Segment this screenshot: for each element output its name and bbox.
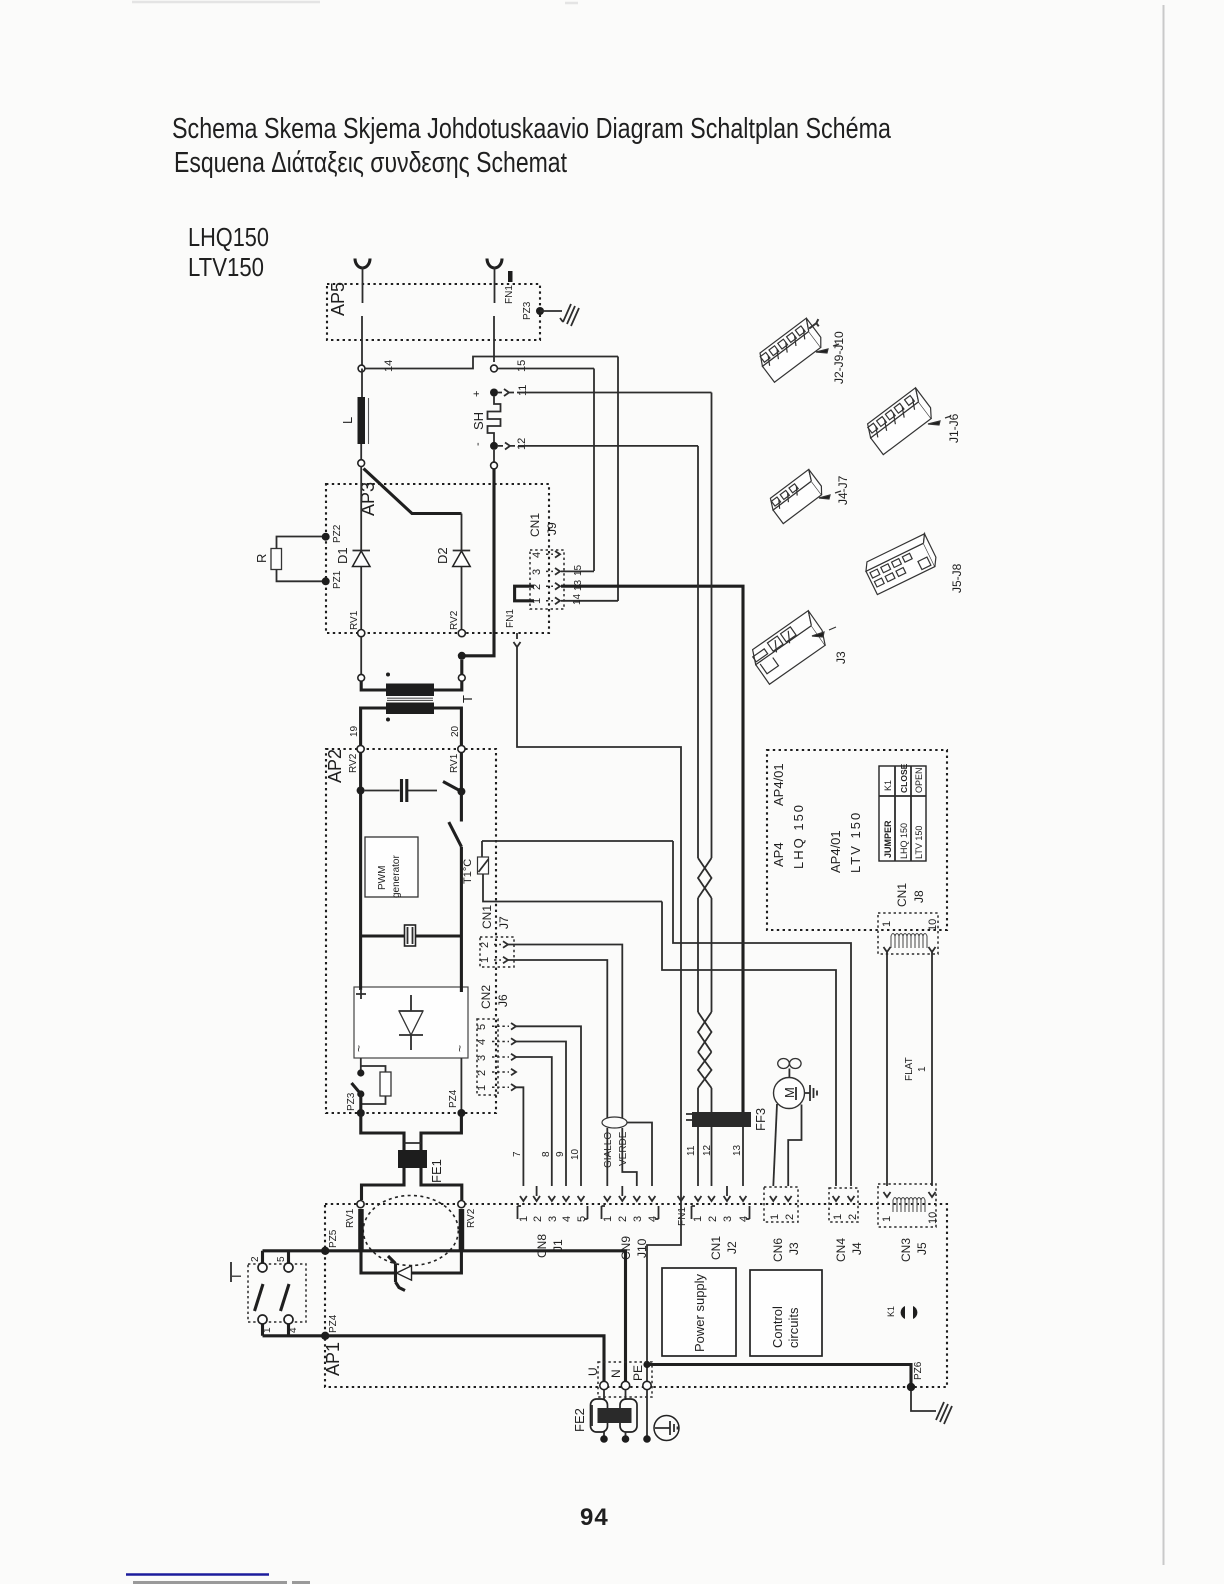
pin arrow J4-J7: [819, 491, 841, 499]
svg-text:D2: D2: [435, 547, 450, 564]
svg-text:PZ1: PZ1: [332, 570, 343, 589]
svg-text:12: 12: [702, 1144, 713, 1156]
svg-text:3: 3: [547, 1216, 559, 1222]
svg-text:14: 14: [572, 593, 583, 605]
pin chevrons CN4: [833, 1196, 855, 1201]
svg-text:19: 19: [349, 725, 360, 737]
coil symbol in CN1/J8: [891, 934, 927, 948]
svg-text:11: 11: [517, 385, 529, 396]
node circle below shunt: [491, 462, 498, 469]
svg-text:J9: J9: [545, 522, 559, 535]
svg-text:SH: SH: [471, 412, 486, 430]
pin 2 of CN2/J6: [492, 1071, 509, 1073]
ferrite FE1: [361, 1113, 462, 1150]
svg-text:J4: J4: [850, 1242, 864, 1255]
switch blade right: [281, 1284, 290, 1311]
transformer T secondary connections: [361, 708, 462, 745]
node RV2 circle: [458, 630, 465, 637]
svg-text:RV2: RV2: [466, 1208, 477, 1228]
pin 4 of CN2/J6: [492, 1041, 509, 1043]
plus mark in bridge: [356, 989, 366, 999]
connector CN1/J7 box: [480, 937, 514, 967]
svg-text:3: 3: [632, 1216, 644, 1222]
output terminal hook left: [355, 259, 370, 269]
node shunt plus dot: [490, 389, 498, 397]
ferrite FE2 loops: [604, 1390, 626, 1400]
wire 13 heavy: [561, 586, 743, 1127]
svg-text:1: 1: [832, 1214, 844, 1220]
svg-text:AP1: AP1: [323, 1342, 343, 1376]
connector CN6/J3 box: [764, 1187, 798, 1222]
node shunt minus dot: [490, 442, 498, 450]
power supply box: [662, 1268, 736, 1356]
pin stub CN1 pin3: [726, 1186, 728, 1196]
svg-text:-: -: [472, 442, 484, 446]
box AP4/01: [767, 750, 947, 930]
node dot PZ3 lower: [357, 1090, 364, 1097]
footer blue rule: [126, 1573, 269, 1576]
scan edge vertical line: [1163, 5, 1165, 1565]
wire right bus lower: [460, 847, 463, 936]
FE2 exit wires: [604, 1432, 626, 1436]
svg-text:10: 10: [570, 1148, 581, 1160]
wire right bus into bridge: [460, 936, 463, 992]
switch I box: [248, 1264, 306, 1322]
wire FN1 to PE: [647, 1186, 681, 1382]
wire R to PZ2: [277, 537, 326, 549]
wire PE down: [646, 1390, 648, 1436]
svg-text:PZ6: PZ6: [913, 1361, 924, 1380]
ferrite FE2 core: [598, 1408, 632, 1423]
resistor R body: [271, 549, 282, 570]
connector pictorial J4-J7: [766, 469, 825, 523]
pin 3 of CN2/J6: [492, 1056, 509, 1058]
box AP2: [326, 749, 496, 1113]
motor wire left: [773, 1104, 777, 1186]
inductor L lead upper: [361, 369, 363, 398]
svg-text:CN8: CN8: [535, 1234, 549, 1258]
wire D1 branch upper: [360, 467, 362, 551]
transformer T primary winding: [386, 684, 434, 697]
pin chevrons CN1/J2: [695, 1196, 747, 1201]
svg-text:FN1: FN1: [505, 609, 516, 628]
svg-text:L: L: [340, 417, 355, 424]
svg-text:LHQ 150: LHQ 150: [791, 803, 806, 869]
wire RV1 to dot: [460, 753, 463, 788]
transformer T primary connections: [361, 681, 462, 690]
chassis ground (PZ6): [936, 1402, 952, 1424]
wire D2 branch lower: [461, 567, 463, 630]
inductor L core line: [368, 398, 370, 444]
earth symbol circled: [654, 1416, 679, 1441]
svg-text:2: 2: [479, 942, 491, 948]
svg-text:CLOSE: CLOSE: [899, 763, 909, 793]
pin chevrons CN9: [604, 1196, 656, 1201]
wire 12 horizontal: [518, 445, 698, 447]
svg-text:PZ4: PZ4: [448, 1089, 459, 1108]
pin 1 of CN1/J7: [494, 959, 501, 961]
connector row: CN9/J10 bracket: [602, 1206, 606, 1219]
node circle left 14: [358, 365, 365, 372]
wire PZ3 to chassis ground: [540, 310, 562, 312]
thermostat T1C branch bottom: [483, 874, 662, 902]
svg-text:10: 10: [927, 919, 939, 931]
svg-text:FLAT: FLAT: [904, 1057, 915, 1081]
svg-text:K1: K1: [886, 1306, 896, 1317]
svg-text:CN1: CN1: [480, 905, 494, 929]
bypass resistor loop: [361, 1066, 386, 1072]
svg-text:T: T: [460, 695, 475, 703]
wire triac loop: [361, 1251, 461, 1273]
wire left bus into bridge: [359, 936, 362, 990]
node circle T primary right: [458, 674, 465, 681]
wire diagonal electrode feed: [364, 469, 462, 514]
svg-text:J3: J3: [787, 1242, 801, 1255]
svg-text:VERDE: VERDE: [618, 1131, 629, 1166]
wire AP2 left bus upper: [359, 753, 362, 936]
svg-text:D1: D1: [335, 547, 350, 564]
svg-text:circuits: circuits: [786, 1307, 801, 1348]
svg-text:5: 5: [276, 1256, 287, 1262]
wire 11 to pin: [697, 1088, 699, 1186]
node PZ5 dot: [321, 1247, 329, 1255]
node PZ1 dot: [322, 577, 330, 585]
diode D2: [453, 551, 471, 567]
jumper K1: [901, 1306, 905, 1319]
node RV2 circle (AP1): [458, 1201, 465, 1208]
wire to PZ3 node: [359, 1094, 362, 1110]
terminal PE circle: [643, 1381, 651, 1389]
svg-text:CN4: CN4: [834, 1238, 848, 1262]
pin 5 of CN2/J6: [492, 1025, 509, 1027]
node supply dot U: [600, 1435, 608, 1443]
node PZ6 dot: [907, 1383, 915, 1391]
node circle T primary left: [358, 674, 365, 681]
wire right bus to open switch: [460, 792, 463, 822]
scan top edge marks: [132, 2, 578, 3]
connector CN3/J5 box: [878, 1184, 936, 1227]
transformer T polarity dot bottom: [386, 718, 390, 722]
node PZ3 dot: [536, 307, 544, 315]
svg-text:FF3: FF3: [753, 1108, 768, 1131]
svg-text:J5-J8: J5-J8: [950, 563, 964, 593]
wire 14 pin lead: [561, 600, 618, 602]
wire cable to CN9 pin4: [627, 1123, 652, 1187]
svg-text:5: 5: [476, 1024, 488, 1030]
wire D1 branch lower: [360, 567, 362, 630]
pin 2 of CN1/J7: [494, 944, 501, 946]
varistor RV2 bar: [459, 1209, 465, 1251]
node PZ4 dot: [457, 1109, 465, 1117]
wire right torch lead lower: [493, 316, 495, 362]
wire neutral bus PZ4: [325, 1336, 604, 1382]
fuse component on AP2 link: [361, 934, 462, 937]
switch terminal 2: [258, 1263, 267, 1272]
svg-text:~: ~: [352, 1045, 366, 1052]
svg-text:12: 12: [516, 438, 528, 450]
svg-text:2: 2: [476, 1070, 488, 1076]
svg-text:J3: J3: [834, 651, 848, 664]
wire 15 vertical drop: [593, 369, 595, 572]
wire switch top to PZ5: [263, 1251, 326, 1263]
svg-text:FE1: FE1: [429, 1159, 444, 1183]
U N PE terminal box: [598, 1362, 652, 1397]
wire shunt branch through AP3: [465, 469, 494, 656]
wire J7 pin2 to VERDE: [508, 945, 622, 1119]
svg-text:LTV 150: LTV 150: [848, 811, 863, 873]
inductor L body: [358, 397, 366, 444]
box AP1: [325, 1204, 947, 1387]
switch blade open (right bus): [449, 822, 462, 847]
pin chevrons CN3: [884, 1192, 936, 1197]
node RV1 circle (AP2): [458, 745, 465, 752]
coil symbol in CN3/J5: [893, 1198, 925, 1212]
wire 11 arrow: [498, 389, 514, 396]
pin chevrons CN1/J8: [884, 947, 936, 952]
motor M body: [774, 1078, 805, 1109]
svg-text:2: 2: [532, 1216, 544, 1222]
terminal N circle: [621, 1381, 629, 1389]
svg-text:T1°C: T1°C: [462, 859, 474, 884]
svg-text:94: 94: [580, 1504, 609, 1531]
wire 11 horizontal: [517, 392, 712, 394]
node RV1 circle: [358, 630, 365, 637]
pin 2 of CN1/J9: [546, 585, 553, 587]
svg-text:3: 3: [476, 1055, 488, 1061]
transformer T core lines: [387, 698, 433, 700]
wire 14 vertical drop: [617, 357, 619, 602]
svg-text:1: 1: [476, 1085, 488, 1091]
wire 10 from pin5: [516, 1026, 581, 1186]
wire RV2 to transformer: [460, 660, 463, 674]
chassis ground (AP5): [560, 304, 579, 326]
node dot right switch: [457, 788, 465, 796]
cable marker ellipse GIALLO/VERDE: [602, 1117, 627, 1128]
svg-text:20: 20: [450, 725, 461, 737]
shunt SH zigzag: [488, 397, 501, 443]
output terminal hook right: [487, 259, 502, 269]
transformer T secondary winding: [386, 703, 434, 715]
wire bridge right to PZ4: [460, 1058, 462, 1110]
diode in bridge: [399, 995, 423, 1050]
wire FN1 drop: [514, 633, 682, 1186]
svg-text:LHQ150: LHQ150: [188, 222, 269, 252]
svg-text:15: 15: [516, 360, 528, 372]
wire 14 horizontal: [365, 357, 618, 369]
svg-text:LTV 150: LTV 150: [914, 826, 924, 859]
label I with overbar: [230, 1262, 232, 1282]
svg-text:13: 13: [732, 1144, 743, 1156]
triac symbol: [397, 1266, 412, 1280]
bridge box: [354, 987, 468, 1058]
varistor RV1 bar: [358, 1209, 364, 1251]
svg-text:+: +: [471, 391, 483, 397]
motor M fan blades: [778, 1059, 790, 1069]
svg-text:PZ5: PZ5: [328, 1229, 339, 1248]
svg-text:U: U: [586, 1367, 600, 1376]
node PZ2 dot: [322, 533, 330, 541]
FLAT cable wire 2: [931, 952, 933, 1186]
svg-text:J2-J9-J10: J2-J9-J10: [832, 331, 846, 384]
wire GIALLO lower: [606, 1128, 608, 1186]
svg-text:K1: K1: [883, 780, 893, 791]
switch terminal 5: [284, 1263, 293, 1272]
svg-text:AP2: AP2: [325, 749, 345, 783]
pin 1 of CN1/J9: [546, 600, 553, 602]
thermostat T1C branch left: [481, 841, 483, 857]
svg-text:Esquena Διάταξεις συνδεσης Sc: Esquena Διάταξεις συνδεσης Schemat: [174, 147, 567, 179]
svg-text:11: 11: [686, 1145, 697, 1156]
svg-text:I: I: [229, 1274, 244, 1278]
thermostat T1C branch top: [482, 840, 673, 842]
svg-text:J5: J5: [915, 1242, 929, 1255]
twisted pair 11/12 lower twist: [698, 1012, 712, 1088]
svg-text:J1-J6: J1-J6: [947, 413, 961, 443]
wire 15 horizontal: [498, 368, 595, 370]
box AP5: [327, 284, 540, 340]
motor earth: [805, 1085, 818, 1101]
switch terminal 1: [258, 1315, 267, 1324]
pin arrow J1-J6: [928, 416, 951, 425]
switch blade (cap to RV1 wire): [443, 782, 461, 792]
node circle right 15: [491, 365, 498, 372]
connector pictorial J3: [748, 611, 830, 685]
connector row: CN8/J1 bracket: [518, 1206, 522, 1219]
node junction dot on RV2 wire: [458, 652, 466, 660]
inductor L lead lower: [360, 444, 362, 460]
node PE junction dot: [643, 1361, 650, 1368]
connector CN2/J6 box: [477, 1019, 498, 1095]
box AP3: [326, 484, 549, 633]
wire D2 branch upper: [461, 514, 463, 551]
wire R to PZ1: [277, 570, 326, 582]
svg-text:J1: J1: [551, 1239, 565, 1252]
svg-text:AP4/01: AP4/01: [828, 830, 843, 873]
svg-text:2: 2: [617, 1216, 629, 1222]
svg-text:GIALLO: GIALLO: [603, 1132, 614, 1168]
thermostat T1C body: [478, 857, 489, 874]
svg-text:R: R: [254, 554, 269, 563]
node PZ3 dot (AP2): [357, 1109, 365, 1117]
svg-text:RV1: RV1: [345, 1208, 356, 1228]
svg-text:PZ2: PZ2: [332, 524, 343, 543]
wire 12 to pin: [711, 1088, 713, 1186]
fan unit dotted ellipse: [363, 1196, 458, 1266]
pin arrow J2-J9-J10: [816, 344, 839, 353]
jumper loop pins 1-2 of CN1/J9: [515, 586, 534, 601]
svg-text:3: 3: [531, 569, 543, 575]
pin chevrons CN8: [520, 1196, 584, 1201]
motor M stem: [788, 1069, 790, 1079]
FLAT cable wire 1: [886, 952, 888, 1186]
svg-text:PWM: PWM: [377, 866, 388, 890]
svg-text:13: 13: [573, 579, 584, 591]
svg-text:M: M: [782, 1087, 797, 1098]
transformer T polarity dot top: [386, 673, 390, 677]
svg-text:2: 2: [847, 1214, 859, 1220]
capacitor C plates: [365, 790, 437, 792]
pin arrow J3: [812, 627, 836, 637]
wire 8 from pin3: [516, 1057, 552, 1186]
svg-text:1: 1: [518, 1216, 530, 1222]
node supply dot PE: [643, 1435, 651, 1443]
wire left torch lead lower: [361, 316, 363, 365]
wire VERDE lower jog to pin3: [622, 1128, 637, 1186]
svg-text:J4-J7: J4-J7: [836, 475, 850, 505]
svg-text:AP5: AP5: [328, 282, 348, 316]
wire 7 from pin1: [516, 1087, 523, 1186]
wire left torch lead upper: [362, 267, 364, 303]
node circle below L: [358, 460, 365, 467]
svg-text:J6: J6: [496, 994, 510, 1007]
connector pictorial J5-J8: [862, 534, 939, 595]
wire switch bottom to PZ4: [263, 1324, 326, 1336]
pin stub CN9 pin2: [621, 1186, 623, 1196]
twisted pair 11/12 mid: [698, 898, 712, 1012]
svg-text:LTV150: LTV150: [188, 252, 264, 282]
pin 1 of CN2/J6: [492, 1086, 509, 1088]
pin 4 of CN1/J9: [546, 553, 553, 555]
svg-text:OPEN: OPEN: [914, 767, 924, 793]
svg-text:4: 4: [531, 552, 543, 558]
svg-text:RV2: RV2: [449, 610, 460, 630]
svg-text:PZ4: PZ4: [328, 1314, 339, 1333]
svg-text:1: 1: [602, 1216, 614, 1222]
svg-text:JUMPER: JUMPER: [883, 820, 893, 858]
svg-text:PE: PE: [631, 1365, 645, 1381]
node RV1 circle (AP1): [357, 1201, 364, 1208]
svg-text:1: 1: [769, 1214, 781, 1220]
wire 9 from pin4: [516, 1042, 566, 1187]
svg-text:CN1: CN1: [528, 513, 542, 537]
svg-text:FE2: FE2: [572, 1408, 587, 1432]
svg-text:14: 14: [383, 360, 395, 372]
svg-text:RV1: RV1: [349, 610, 360, 630]
svg-text:2: 2: [784, 1214, 796, 1220]
svg-text:4: 4: [476, 1039, 488, 1045]
jumper table frame: [879, 766, 926, 861]
svg-text:CN9: CN9: [619, 1236, 633, 1260]
wire J7 pin1 to GIALLO: [508, 960, 607, 1118]
node supply dot N: [622, 1435, 630, 1443]
svg-text:1: 1: [881, 921, 893, 927]
svg-text:2: 2: [250, 1256, 261, 1262]
svg-text:FN1: FN1: [677, 1207, 688, 1226]
svg-text:J2: J2: [725, 1241, 739, 1254]
svg-text:CN1: CN1: [895, 883, 909, 907]
svg-text:PZ3: PZ3: [522, 301, 533, 320]
motor wire right: [788, 1105, 801, 1187]
svg-text:1: 1: [479, 957, 491, 963]
svg-text:CN1: CN1: [709, 1236, 723, 1260]
svg-text:CN3: CN3: [899, 1238, 913, 1262]
svg-text:RV1: RV1: [449, 753, 460, 773]
svg-text:Power supply: Power supply: [692, 1273, 707, 1352]
wire phase bus PZ5: [325, 1251, 625, 1382]
svg-text:~: ~: [453, 1045, 467, 1052]
wire T1C bottom to CN4 pin1: [662, 902, 836, 1187]
connector pictorial J1-J6: [863, 388, 936, 455]
svg-text:Control: Control: [770, 1306, 785, 1348]
connector CN1/J8 box: [878, 913, 938, 954]
wire bridge to PZ3: [360, 1058, 362, 1070]
control circuits box: [750, 1270, 822, 1356]
pin stub CN8 pin2: [536, 1186, 538, 1196]
svg-text:RV2: RV2: [348, 753, 359, 773]
node dot left cap: [357, 787, 365, 795]
svg-text:2: 2: [707, 1216, 719, 1222]
svg-text:15: 15: [573, 564, 584, 576]
